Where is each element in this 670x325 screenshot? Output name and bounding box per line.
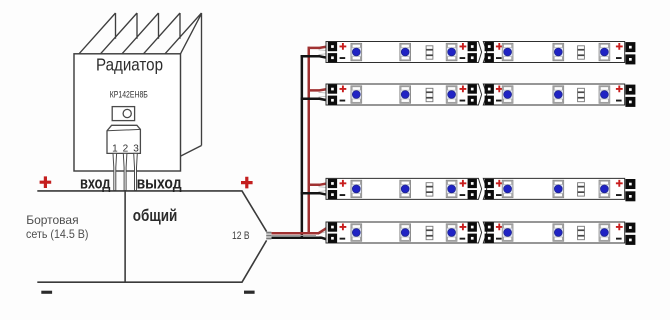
svg-text:1: 1 [112, 143, 118, 154]
svg-text:Радиатор: Радиатор [96, 54, 163, 74]
svg-text:12 В: 12 В [232, 230, 250, 242]
svg-text:выход: выход [137, 173, 182, 192]
svg-text:2: 2 [123, 143, 129, 154]
svg-text:вход: вход [80, 173, 111, 192]
svg-text:сеть (14.5 В): сеть (14.5 В) [26, 227, 89, 241]
svg-text:3: 3 [133, 143, 139, 154]
svg-text:КР142ЕН8Б: КР142ЕН8Б [110, 89, 148, 99]
svg-text:Бортовая: Бортовая [26, 213, 78, 227]
svg-text:общий: общий [133, 207, 178, 225]
